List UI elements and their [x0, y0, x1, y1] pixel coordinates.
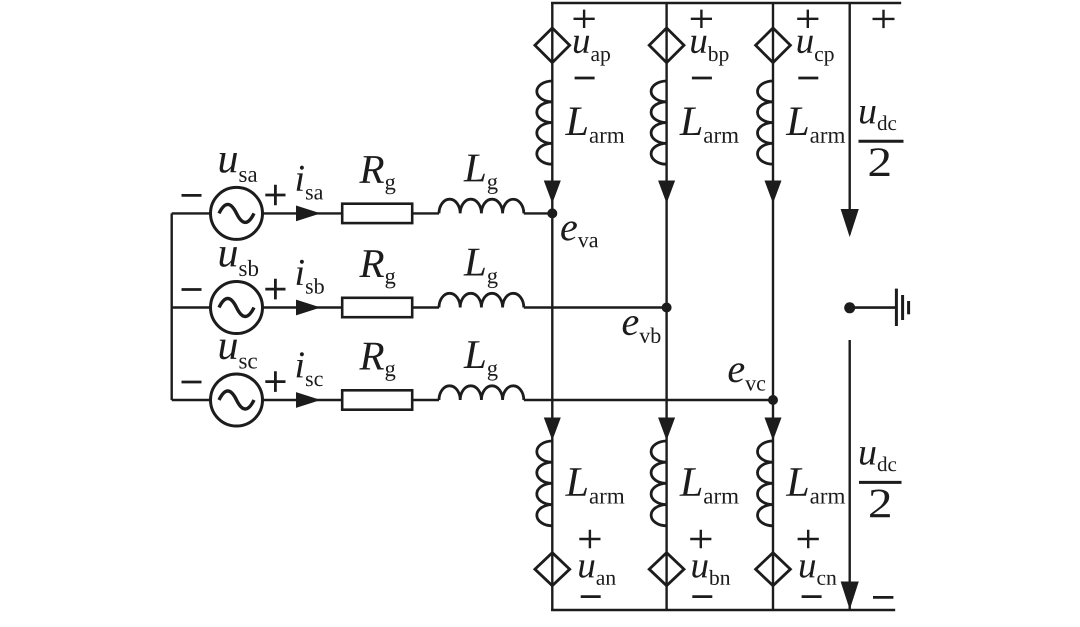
label L_arm upper c: [786, 108, 845, 143]
ground symbol bar 2: [901, 295, 904, 320]
label u_sc: [220, 340, 257, 369]
controlled source u_an diamond: [535, 553, 570, 586]
label u_cn: [800, 560, 837, 585]
label e_vb: [623, 316, 661, 343]
wire row b resistor to inductor: [412, 306, 439, 308]
arm inductor L_arm upper b: [651, 81, 667, 164]
arm current arrow upper b: [659, 181, 675, 202]
controlled source u_ap diamond: [535, 28, 570, 63]
label i_sa: [297, 166, 324, 200]
label L_arm upper b: [679, 108, 738, 143]
wire row c from left bus to source: [172, 399, 211, 401]
dc measurement line lower: [849, 340, 851, 610]
label e_va: [561, 221, 598, 247]
arm inductor L_arm lower c: [758, 441, 774, 526]
plus sign of u_cp: [797, 10, 818, 28]
wire row a inductor to node e_va: [524, 212, 553, 214]
node e_vb: [662, 303, 672, 313]
label u_dc lower: [860, 447, 896, 471]
ac source u_sc sine wave: [219, 391, 254, 409]
minus sign u_dc lower: [873, 596, 893, 599]
label L_arm lower b: [679, 468, 738, 503]
wire row a from left bus to source: [172, 212, 211, 214]
ground wire stub: [850, 306, 897, 309]
label L_g row c: [464, 341, 498, 380]
dc measurement line upper: [849, 3, 851, 234]
controlled source u_cn diamond: [756, 553, 791, 586]
label L_g row a: [464, 155, 498, 194]
resistor R_g row c: [342, 390, 412, 409]
plus sign of u_an: [579, 530, 600, 548]
current arrow i_sb: [297, 300, 320, 314]
wire phase c upper arm: [772, 3, 774, 400]
ac source u_sa circle: [211, 187, 263, 239]
plus sign of u_sc: [265, 371, 285, 392]
wire row c inductor to node e_vc: [524, 399, 773, 401]
bottom dc bus: [551, 609, 895, 612]
label L_arm lower c: [786, 468, 845, 503]
inductor L_g row c: [439, 386, 524, 400]
plus sign of u_sa: [265, 185, 285, 206]
plus sign of u_sb: [265, 279, 285, 300]
label u_an: [579, 560, 616, 585]
label L_arm upper a: [565, 108, 624, 143]
resistor R_g row b: [342, 298, 412, 317]
label u_dc upper: [860, 106, 896, 130]
ac source u_sb circle: [211, 282, 263, 334]
wire phase a lower arm: [551, 213, 553, 610]
plus sign of u_cn: [798, 530, 819, 548]
controlled source u_bp diamond: [649, 28, 684, 63]
arm inductor L_arm lower b: [651, 441, 667, 526]
resistor R_g row a: [342, 204, 412, 223]
minus sign of u_cp: [798, 77, 818, 80]
top dc bus: [551, 2, 901, 5]
plus sign of u_bn: [690, 530, 711, 548]
label L_g row b: [464, 249, 498, 288]
fraction bar lower: [859, 481, 902, 484]
minus sign of u_sb: [182, 288, 202, 291]
plus sign u_dc upper: [873, 10, 895, 28]
wire row b source to resistor: [263, 306, 343, 308]
wire row c source to resistor: [263, 399, 343, 401]
controlled source u_bn diamond: [649, 553, 684, 586]
label L_arm lower a: [565, 468, 624, 503]
wire phase b lower arm: [665, 308, 667, 611]
left bus wire: [170, 213, 172, 400]
node e_va: [547, 208, 557, 218]
current arrow i_sc: [297, 393, 320, 407]
fraction bar upper: [859, 140, 904, 143]
wire phase b upper arm: [665, 3, 667, 308]
arm inductor L_arm upper c: [758, 81, 774, 164]
node e_vc: [768, 395, 778, 405]
dc arrow lower: [841, 582, 858, 608]
minus sign of u_sa: [182, 194, 202, 197]
label u_bn: [692, 560, 730, 585]
label R_g row b: [359, 250, 395, 288]
current arrow i_sa: [297, 206, 320, 220]
arm current arrow lower b: [659, 418, 675, 439]
label u_bp: [691, 36, 728, 66]
ground node dot: [844, 302, 855, 313]
arm inductor L_arm upper a: [537, 81, 553, 164]
wire row b from left bus to source: [172, 306, 211, 308]
minus sign of u_cn: [802, 595, 822, 598]
ground symbol bar 1: [895, 289, 898, 326]
wire phase a upper arm: [551, 3, 553, 213]
label i_sb: [297, 260, 324, 294]
arm current arrow lower c: [765, 418, 781, 439]
wire row a resistor to inductor: [412, 212, 439, 214]
minus sign of u_an: [581, 595, 601, 598]
minus sign of u_ap: [575, 77, 595, 80]
ac source u_sc circle: [211, 374, 263, 426]
label u_cp: [798, 36, 834, 66]
label 2 lower: [870, 490, 890, 518]
plus sign of u_bp: [691, 10, 712, 28]
wire row b inductor to node e_vb: [524, 306, 667, 308]
minus sign of u_bp: [692, 77, 712, 80]
label R_g row a: [359, 156, 395, 194]
label i_sc: [297, 352, 323, 386]
ac source u_sa sine wave: [219, 204, 254, 222]
label u_sb: [220, 247, 259, 276]
arm current arrow upper a: [545, 181, 561, 202]
minus sign of u_bn: [692, 595, 712, 598]
label u_sa: [220, 153, 258, 182]
wire row a source to resistor: [263, 212, 343, 214]
arm current arrow upper c: [765, 181, 781, 202]
arm inductor L_arm lower a: [537, 441, 553, 526]
label u_ap: [574, 36, 610, 66]
ground symbol bar 3: [907, 301, 910, 314]
dc arrow upper: [841, 210, 858, 236]
ac source u_sb sine wave: [219, 299, 254, 317]
label 2 upper: [870, 148, 890, 176]
inductor L_g row b: [439, 293, 524, 307]
inductor L_g row a: [439, 199, 524, 213]
plus sign of u_ap: [574, 10, 595, 28]
label e_vc: [729, 363, 766, 391]
arm current arrow lower a: [545, 418, 561, 439]
controlled source u_cp diamond: [756, 28, 791, 63]
minus sign of u_sc: [182, 381, 202, 384]
label R_g row c: [359, 343, 395, 381]
wire row c resistor to inductor: [412, 399, 439, 401]
wire phase c lower arm: [772, 400, 774, 610]
